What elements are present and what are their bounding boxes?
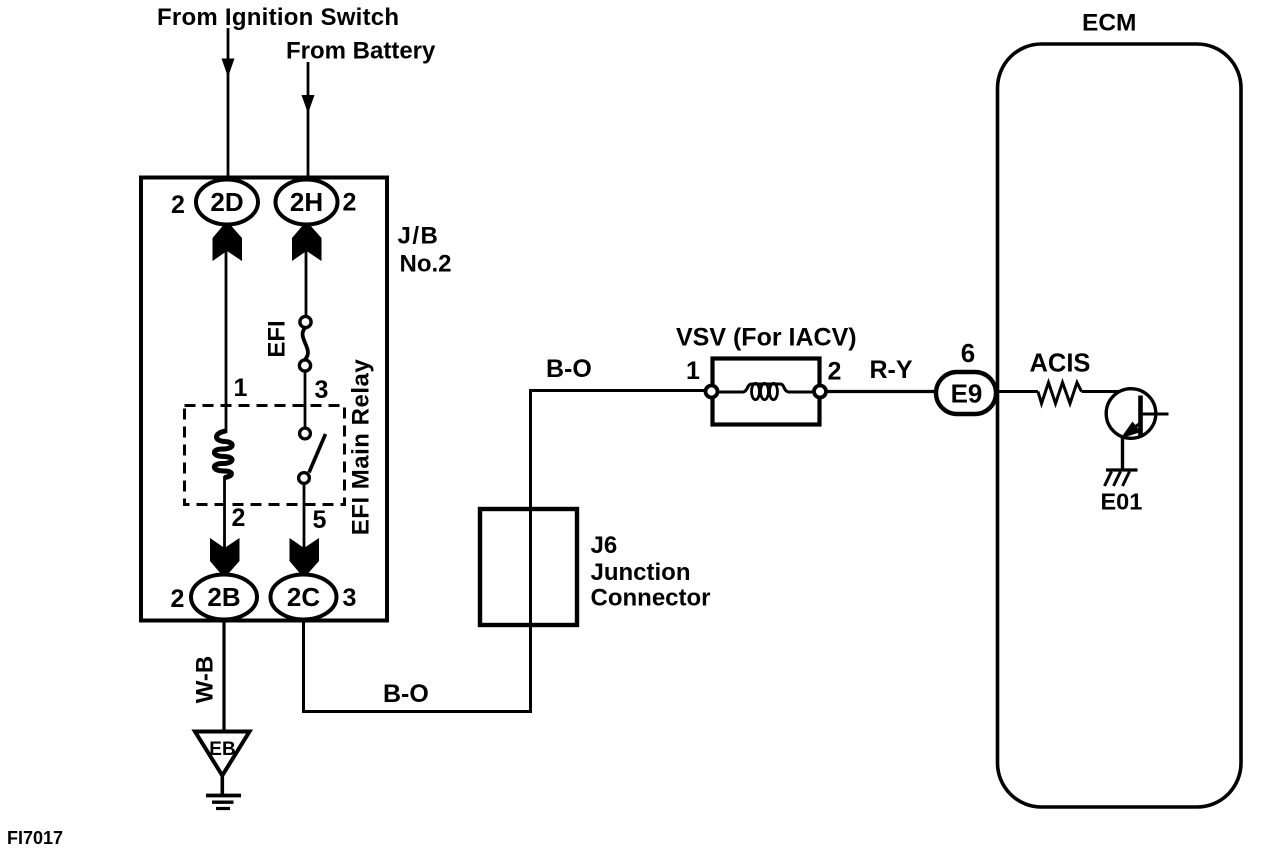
- svg-text:J6: J6: [591, 532, 618, 559]
- ground EB hatch: [206, 794, 241, 798]
- svg-text:FI7017: FI7017: [7, 828, 63, 848]
- terminal arrow down at 2B: [210, 538, 240, 574]
- wire from ignition switch: [227, 28, 230, 181]
- svg-text:2D: 2D: [210, 187, 243, 217]
- svg-text:2H: 2H: [290, 187, 323, 217]
- ground EB stem: [221, 775, 225, 795]
- relay coil L: [214, 431, 232, 478]
- svg-text:E9: E9: [951, 379, 983, 409]
- svg-text:2: 2: [343, 189, 357, 217]
- terminal arrow up at 2D: [213, 225, 243, 261]
- svg-text:2: 2: [171, 585, 185, 613]
- wire EFI fuse to relay switch: [304, 371, 307, 428]
- svg-text:ECM: ECM: [1082, 10, 1136, 37]
- connector 2D: [196, 180, 258, 225]
- connector E9: [936, 372, 996, 414]
- resistor ACIS: [1038, 383, 1082, 404]
- svg-text:B-O: B-O: [546, 355, 592, 383]
- wire VSV to E9 (R-Y): [827, 390, 935, 393]
- wire relay coil to 2B: [223, 476, 226, 580]
- VSV coil: [718, 384, 813, 392]
- relay dashed box: [185, 406, 345, 505]
- svg-text:3: 3: [343, 584, 357, 612]
- ground E01: [1106, 468, 1138, 471]
- svg-text:E01: E01: [1101, 489, 1143, 515]
- svg-text:6: 6: [961, 338, 975, 368]
- svg-text:2: 2: [171, 191, 185, 219]
- wire resistor to transistor base: [1082, 390, 1121, 393]
- svg-text:1: 1: [234, 374, 248, 402]
- transistor emitter: [1128, 423, 1141, 432]
- svg-text:J/B: J/B: [398, 223, 440, 250]
- transistor Q1 body: [1106, 389, 1156, 439]
- wire 2H to EFI fuse: [305, 220, 308, 317]
- svg-text:W-B: W-B: [192, 656, 219, 704]
- wire 2C to J6 to VSV (B-O): [304, 391, 705, 712]
- wire E9 to resistor: [999, 390, 1038, 393]
- svg-text:2: 2: [232, 504, 246, 532]
- svg-text:EFI: EFI: [264, 320, 291, 357]
- transistor collector: [1141, 413, 1169, 416]
- ground EB triangle: [195, 732, 250, 776]
- svg-text:No.2: No.2: [400, 251, 452, 278]
- arrowhead battery wire: [302, 95, 315, 114]
- wire 2D to relay coil: [225, 220, 228, 433]
- EFI fuse: [303, 328, 308, 360]
- svg-text:2C: 2C: [287, 582, 320, 612]
- wire emitter to ground E01: [1121, 436, 1124, 470]
- ECM box: [998, 44, 1242, 807]
- svg-text:EFI Main Relay: EFI Main Relay: [348, 359, 375, 536]
- arrowhead ignition wire: [222, 59, 235, 78]
- wire from battery: [307, 62, 310, 181]
- svg-text:Junction: Junction: [591, 559, 691, 586]
- svg-text:EB: EB: [209, 739, 235, 760]
- svg-text:2B: 2B: [207, 582, 240, 612]
- wire relay switch to 2C: [303, 484, 306, 580]
- connector 2B: [191, 575, 257, 620]
- svg-text:From Ignition Switch: From Ignition Switch: [157, 4, 399, 31]
- svg-text:5: 5: [313, 506, 327, 534]
- svg-text:1: 1: [686, 357, 700, 385]
- VSV pin 2 node: [814, 386, 826, 398]
- svg-text:2: 2: [828, 358, 842, 386]
- svg-text:R-Y: R-Y: [870, 356, 913, 384]
- junction block J/B No.2 box: [141, 178, 387, 621]
- terminal arrow up at 2H: [292, 225, 322, 261]
- connector 2H: [276, 180, 338, 225]
- svg-text:3: 3: [315, 376, 329, 404]
- transistor base bar: [1138, 396, 1143, 438]
- svg-text:Connector: Connector: [591, 585, 711, 612]
- VSV pin 1 node: [706, 386, 718, 398]
- relay switch: [309, 434, 326, 473]
- junction connector J6 box: [480, 509, 577, 625]
- svg-text:B-O: B-O: [383, 680, 429, 708]
- terminal arrow down at 2C: [290, 538, 320, 574]
- svg-text:VSV (For IACV): VSV (For IACV): [676, 324, 857, 352]
- connector 2C: [271, 575, 337, 620]
- svg-text:From Battery: From Battery: [286, 38, 436, 65]
- VSV solenoid valve box: [713, 359, 820, 425]
- svg-text:ACIS: ACIS: [1030, 350, 1091, 378]
- wire 2B to ground EB: [222, 619, 225, 731]
